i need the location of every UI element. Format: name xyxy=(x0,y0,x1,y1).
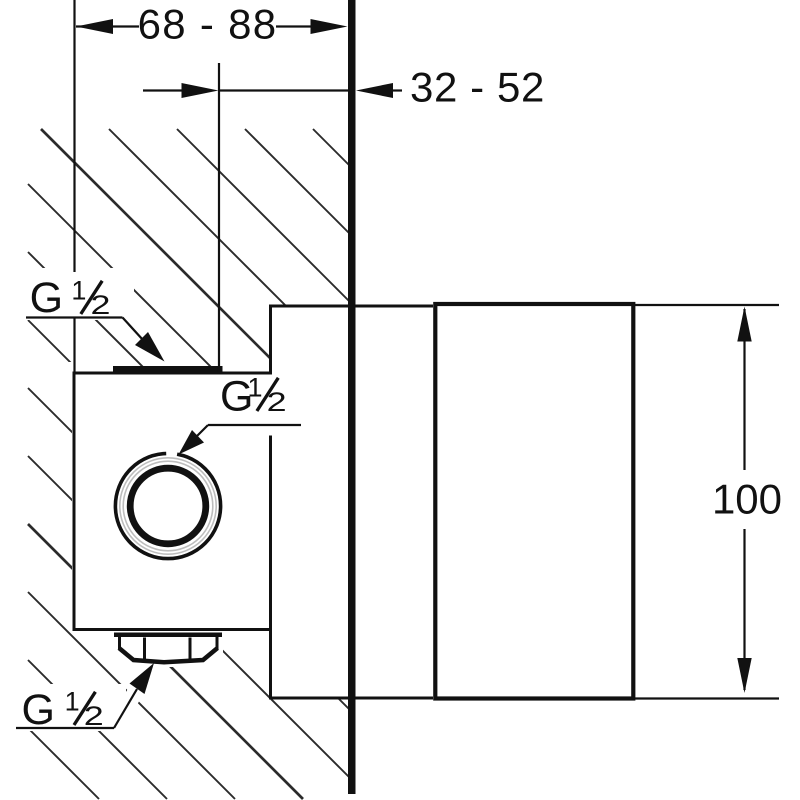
svg-text:G: G xyxy=(30,274,63,322)
dimension 100 dimension line xyxy=(743,309,745,690)
bottom hex union nut xyxy=(120,637,218,660)
svg-text:G: G xyxy=(22,686,55,734)
bottom G 1/2 leader line xyxy=(16,689,137,728)
top outlet thread flange xyxy=(113,366,223,375)
middle G 1/2 leader line xyxy=(197,425,301,436)
side inlet port bore ring xyxy=(130,468,206,544)
side inlet port seal rings xyxy=(120,458,216,554)
top G 1/2 leader arrowhead xyxy=(135,332,165,362)
dimension 68-88 arrowheads xyxy=(76,19,348,34)
dimension 68-88 extension line xyxy=(73,0,75,372)
svg-text:32 - 52: 32 - 52 xyxy=(410,64,545,111)
bottom label G 1/2 xyxy=(22,686,104,734)
leader line white halos xyxy=(114,318,157,728)
dimension 32-52 extension line xyxy=(218,63,220,372)
outer trim housing rectangle xyxy=(435,304,633,699)
hex nut chamfered bottom edge xyxy=(119,648,218,662)
svg-text:68 - 88: 68 - 88 xyxy=(138,1,278,48)
wall section hatching xyxy=(28,129,352,799)
finished wall face line xyxy=(348,0,356,794)
dimension 32-52 arrowheads xyxy=(182,83,394,98)
top label G 1/2 xyxy=(30,274,111,322)
dimension 100 arrowheads xyxy=(737,307,751,694)
dimension 68-88 dimension line xyxy=(76,25,311,27)
side inlet port outer ring xyxy=(115,453,220,558)
dimension 100 extension lines xyxy=(634,305,779,699)
svg-text:100: 100 xyxy=(712,476,782,523)
valve body outline xyxy=(73,372,273,632)
hatching keep-out masks xyxy=(8,268,357,731)
flush-mount valve housing box xyxy=(269,305,433,699)
bottom G 1/2 leader arrowhead xyxy=(130,663,155,694)
middle G 1/2 leader arrowhead xyxy=(179,430,205,455)
top G 1/2 leader line xyxy=(26,318,143,341)
middle label G 1/2 xyxy=(220,373,287,421)
ring notch at leader arrow xyxy=(166,451,177,457)
bottom thread collar xyxy=(114,633,222,638)
dimension 32-52 dimension line xyxy=(143,89,402,91)
